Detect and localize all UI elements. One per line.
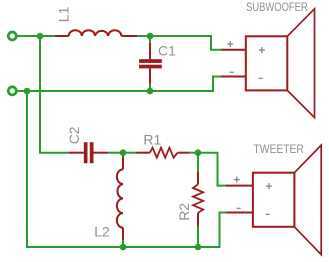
- wire: return drop from node B down to tweeter bottom rail: [27, 91, 220, 247]
- subwoofer plus label (inside): [259, 47, 265, 53]
- tweeter minus label (inside): [266, 214, 270, 215]
- node: C1 top junction: [147, 33, 154, 40]
- wire: hot drop from node A down to C2 row: [40, 36, 69, 153]
- inductor L1: [55, 30, 137, 36]
- input terminal J1 (top): [8, 32, 16, 40]
- node A: top rail / hot drop junction: [37, 33, 44, 40]
- wire: subwoofer plus stub (red): [222, 49, 247, 51]
- tweeter minus pin label (outside): [237, 208, 241, 209]
- subwoofer plus pin label (outside): [227, 41, 233, 47]
- wire: tweeter plus stub (red): [226, 185, 253, 187]
- wire: top rail L1 to subwoofer corner: [137, 35, 211, 37]
- subwoofer minus pin label (outside): [230, 72, 234, 73]
- input terminal J2 (bottom): [8, 87, 16, 95]
- node C: C2/R1/L2 junction: [120, 149, 127, 156]
- svg-text:L1: L1: [56, 6, 72, 22]
- node D: R1/R2 junction: [195, 149, 202, 156]
- svg-text:C1: C1: [158, 43, 176, 59]
- subwoofer minus label (inside): [259, 78, 263, 79]
- svg-text:R2: R2: [176, 203, 192, 221]
- tweeter speaker LS2: [253, 145, 321, 255]
- node: L2 bottom junction: [120, 244, 127, 251]
- capacitor C2: [69, 142, 108, 163]
- resistor R2: [193, 172, 203, 227]
- subwoofer speaker LS1: [246, 9, 315, 118]
- wire: tweeter minus stub (red): [226, 212, 253, 214]
- wire: node D to tweeter plus: [198, 153, 227, 186]
- node B: bottom rail / return drop junction: [24, 88, 31, 95]
- wire: subwoofer minus stub (red): [222, 76, 247, 78]
- inductor L2: [117, 156, 123, 240]
- svg-text:TWEETER: TWEETER: [253, 142, 304, 156]
- tweeter plus pin label (outside): [234, 177, 240, 183]
- wire: top rail J1 to L1: [17, 35, 55, 37]
- tweeter plus label (inside): [266, 183, 272, 189]
- capacitor C1: [139, 43, 162, 84]
- wire: tweeter minus rise: [220, 213, 228, 249]
- svg-text:R1: R1: [143, 131, 161, 147]
- wire: bottom rail J2 to subwoofer minus corner: [17, 90, 213, 92]
- wire: C1 bottom green tail: [149, 84, 151, 91]
- wire: C2 to node C: [108, 152, 123, 154]
- wire: L2 top green tail: [122, 153, 124, 157]
- wire: L2 bottom green tail: [122, 240, 124, 247]
- wire: C1 top green tail: [149, 36, 151, 43]
- node: R2 bottom junction: [195, 244, 202, 251]
- wire: R2 top green tail: [197, 153, 199, 172]
- svg-text:C2: C2: [66, 126, 82, 144]
- svg-text:L2: L2: [94, 224, 110, 240]
- wire: subwoofer minus rise: [213, 77, 223, 93]
- wire: R1 to node D: [189, 152, 198, 154]
- svg-text:SUBWOOFER: SUBWOOFER: [246, 0, 308, 14]
- resistor R1: [136, 148, 189, 158]
- wire: R2 bottom green tail: [197, 227, 199, 248]
- wire: node C to R1: [123, 152, 136, 154]
- node: C1 bottom junction: [147, 88, 154, 95]
- wire: subwoofer plus drop: [211, 35, 223, 50]
